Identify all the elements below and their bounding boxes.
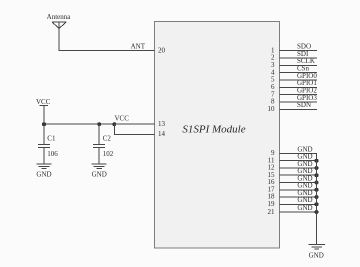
svg-text:102: 102 — [103, 150, 114, 158]
svg-text:106: 106 — [47, 150, 58, 158]
svg-text:14: 14 — [158, 130, 166, 138]
VCC power symbol — [36, 98, 51, 124]
node junction at C1 — [42, 122, 46, 126]
wire to pin 14 — [114, 124, 154, 134]
wire pin 5 GPIO0 — [271, 72, 317, 84]
wire pin 8 GPIO3 — [271, 94, 317, 106]
svg-text:GND: GND — [297, 204, 312, 212]
wire pin 6 GPIO1 — [271, 79, 317, 91]
capacitor C2 — [93, 124, 114, 164]
ground C2 — [92, 164, 107, 179]
wire pin 21 GND — [268, 204, 319, 216]
antenna — [47, 13, 72, 28]
ground symbol (bus) — [309, 245, 325, 260]
svg-text:C1: C1 — [47, 134, 56, 142]
svg-text:GND: GND — [309, 251, 324, 259]
svg-text:20: 20 — [158, 46, 166, 54]
wire pin 2 SDI — [271, 50, 317, 62]
svg-text:13: 13 — [158, 120, 166, 128]
wire pin 19 GND — [268, 196, 319, 208]
svg-text:GND: GND — [92, 171, 107, 179]
wire pin 9 GND — [271, 145, 317, 157]
svg-text:S1SPI Module: S1SPI Module — [182, 123, 245, 135]
ground C1 — [36, 164, 51, 179]
svg-text:VCC: VCC — [36, 98, 51, 106]
wire pin 11 GND — [268, 153, 319, 165]
wire pin 17 GND — [268, 182, 319, 194]
svg-text:GND: GND — [297, 196, 312, 204]
S1SPI module U1 — [154, 22, 279, 249]
svg-text:ANT: ANT — [131, 42, 146, 50]
wire pin 4 CSn — [271, 65, 317, 77]
svg-text:C2: C2 — [103, 134, 112, 142]
wire pin 16 GND — [268, 174, 319, 186]
svg-text:VCC: VCC — [115, 115, 130, 123]
wire pin 1 SDO — [271, 43, 317, 55]
wire pin 15 GND — [268, 167, 319, 179]
wire pin 7 GPIO2 — [271, 87, 317, 99]
svg-text:10: 10 — [268, 105, 276, 113]
GND bus wire — [316, 153, 318, 244]
svg-text:19: 19 — [268, 200, 276, 208]
svg-text:Antenna: Antenna — [47, 13, 72, 21]
wire antenna to pin 20 — [59, 28, 154, 50]
wire to pin 13 — [114, 123, 154, 125]
node junction at C2 — [97, 122, 101, 126]
capacitor C1 — [38, 124, 58, 164]
node VCC junction — [112, 122, 116, 126]
svg-text:GND: GND — [36, 171, 51, 179]
wire VCC rail — [44, 123, 114, 125]
svg-text:SDN: SDN — [297, 101, 311, 109]
wire pin 18 GND — [268, 189, 319, 201]
svg-text:21: 21 — [268, 208, 276, 216]
wire pin 12 GND — [268, 160, 319, 172]
wire pin 10 SDN — [268, 101, 318, 113]
wire pin 3 SCLK — [271, 57, 317, 69]
